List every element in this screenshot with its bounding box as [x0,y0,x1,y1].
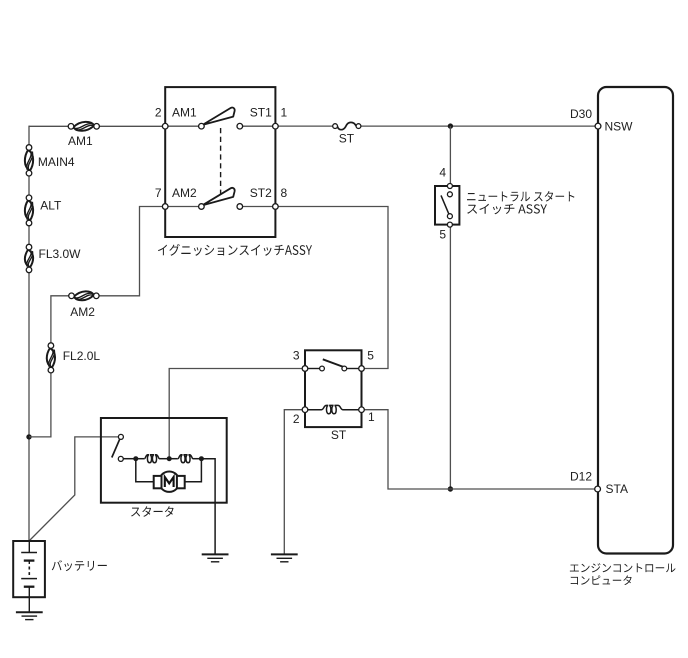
magnet switch terminal 1 [359,407,365,413]
svg-text:5: 5 [367,348,374,362]
wire: ST fuse to ECU terminal D30 [361,125,597,127]
svg-text:2: 2 [293,412,300,426]
svg-text:ST1: ST1 [250,106,272,120]
wire: AM2 fuse to FL2.0L [51,296,69,343]
svg-text:ST: ST [331,428,347,442]
ignition contact ST1 [237,123,243,129]
ignition contact AM2 [199,204,205,210]
wire: neutral start switch pin 5 down to STA junction [449,227,451,489]
starter coil junction left [133,456,138,461]
wire: starter solenoid coil feed up to magnet switch terminal 3 [169,369,302,459]
fusible link FL2.0L [47,348,55,368]
magnet switch coil between 2 and 1 [305,405,362,413]
magnet switch terminal 2 [302,407,308,413]
svg-text:AM2: AM2 [70,305,95,319]
battery plate long 1 [21,552,37,554]
motor label M [165,477,174,487]
starter contact to coil wire [123,458,136,460]
svg-text:D30: D30 [570,107,592,121]
svg-text:FL3.0W: FL3.0W [39,247,82,261]
neutral switch lower contact [447,214,452,219]
svg-text:AM1: AM1 [68,134,93,148]
wire: AM1 fuse to ignition switch terminal 2 [99,125,165,127]
magnet switch terminal 3 [302,366,308,372]
wire: FL2.0L down and left to battery bus junction [29,373,51,437]
battery dotted middle [28,567,30,576]
wire: left vertical bus segment below AM1 corner [28,126,30,145]
ECU terminal NSW [595,123,601,129]
fuse ST [337,122,356,129]
wire: battery feed to AM1 fuse [29,125,68,127]
svg-text:8: 8 [281,186,288,200]
wire: MAIN4 to ALT segment [28,176,30,195]
dashed mechanical link [220,128,222,197]
wire: battery positive diagonal feed to starter contact [30,437,119,541]
svg-text:ALT: ALT [40,198,62,212]
ground under magnet switch coil [271,553,298,555]
label engine control computer line2 (Japanese) [571,575,632,585]
svg-text:5: 5 [439,228,446,242]
svg-text:2: 2 [155,106,162,120]
motor left brush [154,476,162,488]
svg-text:7: 7 [155,186,162,200]
label neutral start switch line1 (Japanese) [467,191,574,202]
starter switch arm [112,439,120,457]
magnet switch terminal 5 [359,366,365,372]
svg-text:STA: STA [606,482,628,496]
neutral switch pin 4 terminal [447,184,452,189]
switch arm wedge AM1-ST1 [203,108,235,125]
wire: magnet switch terminal 2 to ground [284,410,302,554]
wire: ALT to FL3.0W segment [28,226,30,245]
svg-text:1: 1 [368,410,375,424]
ignition switch AM1 row inner wire [165,125,199,127]
wire: magnet switch terminal 1 to ECU terminal D12 [364,410,597,489]
ignition terminal 7 [162,204,168,210]
wire: FL3.0W down to battery junction [28,273,30,542]
starter motor M [159,472,179,492]
starter box [101,418,227,503]
battery bottom lead to ground [28,588,30,612]
neutral switch arm [441,195,449,214]
svg-text:4: 4 [439,166,446,180]
battery plate short 1 [24,559,35,561]
battery top lead [28,541,30,552]
starter motor armature wires [136,459,154,482]
label engine control computer line1 (Japanese) [570,563,676,572]
svg-text:ST: ST [339,132,355,146]
wire: ST1 terminal 1 to ST fuse [275,125,332,127]
svg-text:3: 3 [293,349,300,363]
junction node on STA line [448,486,453,491]
svg-text:MAIN4: MAIN4 [38,155,75,169]
neutral switch pin 5 terminal [447,222,452,227]
neutral switch upper contact [447,192,452,197]
ground under starter [202,553,229,555]
fusible link MAIN4 [25,150,33,171]
switch arm wedge AM2-ST2 [203,188,235,205]
ignition terminal 2 [162,123,168,129]
svg-text:NSW: NSW [605,119,634,133]
fusible link FL3.0W [25,250,33,268]
battery plate short 2 [24,586,35,588]
magnet switch contact row wires [305,368,320,370]
wire: terminal 7 branch to AM2 fuse [99,207,165,296]
wire: ST2 terminal 8 to magnet switch terminal 5 [275,207,388,369]
magnet switch arm [323,359,345,367]
starter wire to ground [201,459,215,554]
junction node above neutral start switch [448,123,453,128]
ECU terminal STA [595,486,601,492]
starter coil junction middle [167,456,172,461]
ignition terminal 1 [273,123,279,129]
ignition switch AM2 row inner wire [165,206,199,208]
motor right brush [177,476,185,488]
starter field coil 2 [178,455,193,463]
label neutral start switch line2 (Japanese) [467,204,547,215]
ignition switch box U1 [165,87,275,237]
label battery (Japanese) [52,560,107,571]
label starter (Japanese) [131,506,174,517]
svg-text:AM1: AM1 [172,106,197,120]
ignition contact AM1 [199,123,205,129]
svg-text:ST2: ST2 [250,186,272,200]
starter field coil 1 [144,455,159,463]
ignition terminal 8 [273,204,279,210]
svg-text:FL2.0L: FL2.0L [63,349,101,363]
wire: junction down to neutral start switch pin 4 [449,126,451,184]
svg-text:D12: D12 [570,470,592,484]
ignition contact ST2 [237,204,243,210]
junction node at battery bus / FL2.0L branch [26,434,31,439]
magnet switch left contact [320,366,325,371]
label ignition switch ASSY (Japanese) [158,244,312,256]
fusible link AM1 [73,122,94,131]
starter coil junction right [199,456,204,461]
svg-text:1: 1 [281,106,288,120]
starter lower contact [118,456,123,461]
neutral start switch box [435,186,459,225]
svg-text:AM2: AM2 [172,186,197,200]
battery plate long 2 [21,578,37,580]
starter upper contact [118,434,123,439]
engine control computer box [598,87,673,554]
fusible link AM2 [74,291,94,300]
magnet switch right contact [342,366,347,371]
battery box [13,541,45,597]
magnet switch box [305,350,362,427]
fusible link ALT [25,200,33,220]
ground under battery [16,611,43,613]
